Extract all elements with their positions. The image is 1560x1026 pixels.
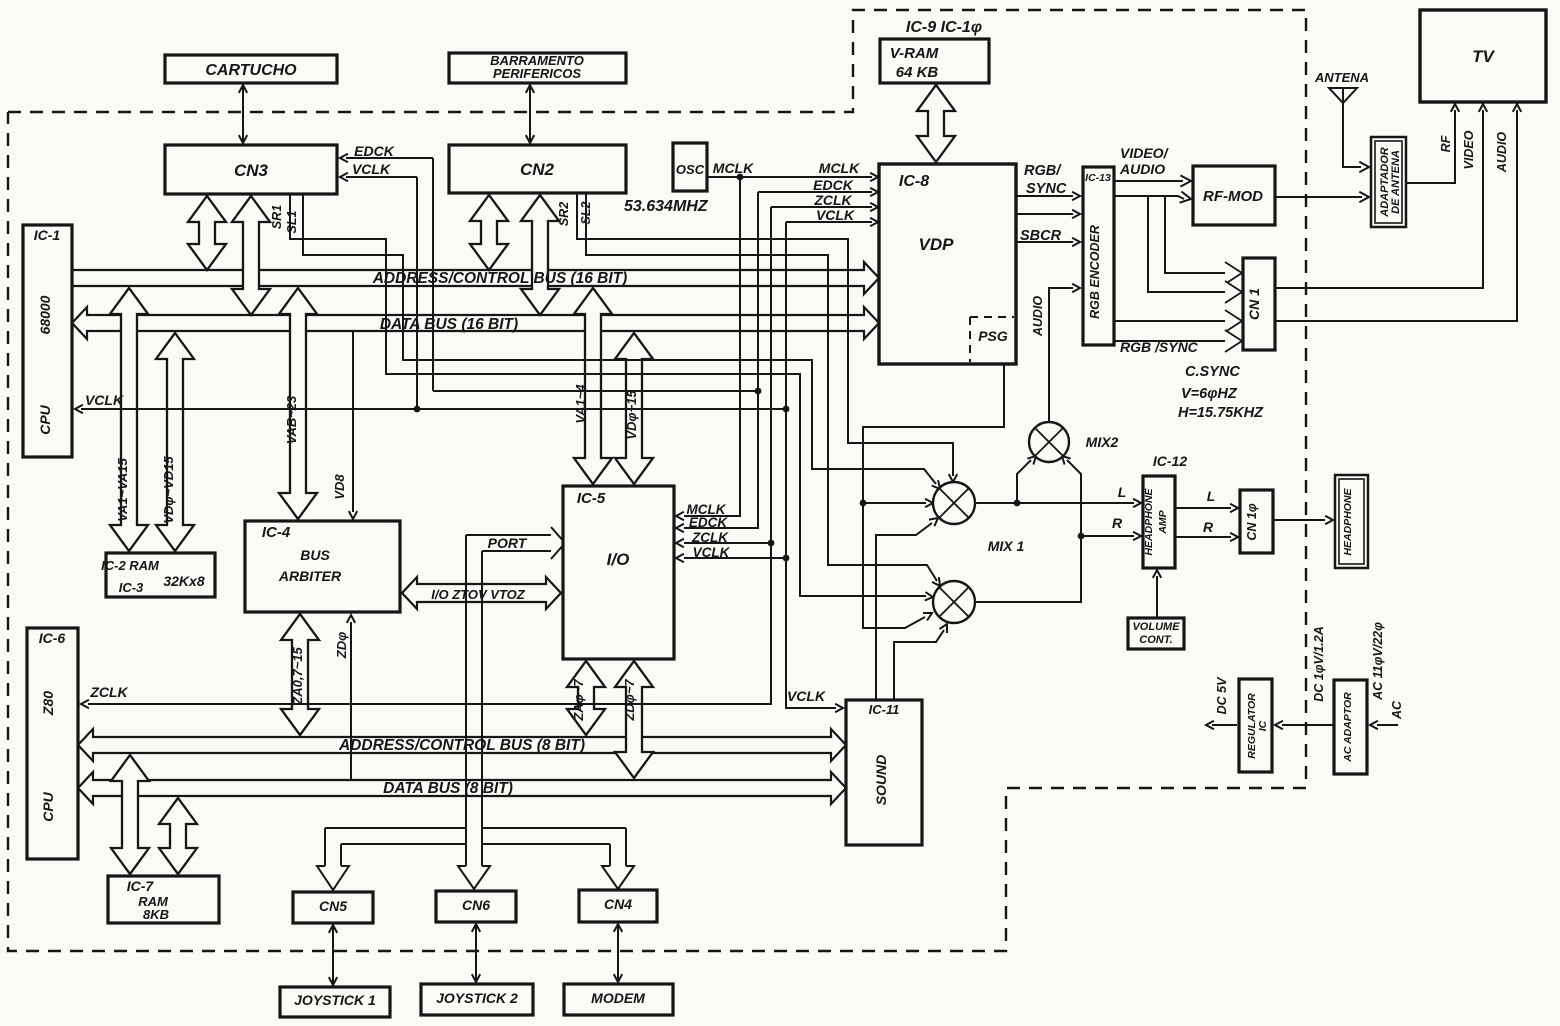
svg-text:AC 11φV/22φ: AC 11φV/22φ	[1371, 622, 1385, 701]
svg-text:IC-7: IC-7	[127, 878, 155, 894]
svg-text:53.634MHZ: 53.634MHZ	[624, 198, 709, 215]
svg-text:DC 5V: DC 5V	[1215, 676, 1229, 714]
svg-text:JOYSTICK 2: JOYSTICK 2	[436, 990, 518, 1006]
svg-text:L: L	[1118, 484, 1127, 500]
svg-text:IC: IC	[1257, 720, 1269, 731]
svg-text:IC-11: IC-11	[869, 702, 900, 717]
svg-text:VCLK: VCLK	[787, 688, 826, 704]
svg-text:SL1: SL1	[285, 210, 299, 233]
svg-text:IC-13: IC-13	[1085, 172, 1111, 184]
svg-text:R: R	[1112, 515, 1123, 531]
svg-text:ZA0,7~15: ZA0,7~15	[290, 647, 305, 706]
svg-text:AUDIO: AUDIO	[1495, 132, 1509, 174]
svg-text:VIDEO/: VIDEO/	[1120, 145, 1170, 161]
svg-text:RGB /SYNC: RGB /SYNC	[1120, 339, 1199, 355]
svg-text:ZCLK: ZCLK	[691, 530, 729, 545]
svg-text:IC-4: IC-4	[262, 524, 291, 541]
svg-text:DE ANTENA: DE ANTENA	[1390, 150, 1402, 214]
svg-text:I/O ZTOV VTOZ: I/O ZTOV VTOZ	[431, 587, 525, 602]
svg-text:ZDφ~7: ZDφ~7	[622, 679, 637, 722]
svg-text:AC ADAPTOR: AC ADAPTOR	[1342, 692, 1354, 763]
svg-text:RGB/: RGB/	[1024, 163, 1062, 179]
svg-text:SOUND: SOUND	[873, 755, 889, 806]
svg-text:VIDEO: VIDEO	[1462, 130, 1476, 169]
svg-text:ANTENA: ANTENA	[1314, 70, 1369, 85]
svg-text:ZAφ~7: ZAφ~7	[571, 679, 586, 722]
svg-text:ADDRESS/CONTROL BUS (16 BIT): ADDRESS/CONTROL BUS (16 BIT)	[372, 270, 628, 287]
svg-text:HEADPHONE: HEADPHONE	[1143, 487, 1155, 555]
svg-text:H=15.75KHZ: H=15.75KHZ	[1178, 405, 1264, 421]
svg-text:VD8: VD8	[332, 474, 347, 500]
svg-text:IC-3: IC-3	[119, 580, 144, 595]
svg-text:OSC: OSC	[676, 162, 705, 177]
svg-text:PORT: PORT	[488, 535, 528, 551]
svg-text:R: R	[1203, 519, 1214, 535]
svg-text:VA1~VA15: VA1~VA15	[115, 458, 130, 522]
svg-text:L: L	[1207, 488, 1216, 504]
svg-text:CPU: CPU	[40, 791, 56, 821]
svg-text:8KB: 8KB	[143, 907, 169, 922]
svg-text:VAB~23: VAB~23	[284, 395, 299, 444]
svg-text:BUS: BUS	[300, 547, 330, 563]
svg-text:MODEM: MODEM	[591, 990, 645, 1006]
svg-text:CN5: CN5	[319, 898, 347, 914]
svg-text:IC-2 RAM: IC-2 RAM	[101, 558, 160, 573]
svg-text:IC-6: IC-6	[39, 630, 66, 646]
svg-text:ZCLK: ZCLK	[89, 684, 128, 700]
svg-text:MIX2: MIX2	[1086, 434, 1119, 450]
svg-text:ARBITER: ARBITER	[278, 568, 342, 584]
svg-text:MCLK: MCLK	[819, 160, 860, 176]
svg-text:VOLUME: VOLUME	[1132, 621, 1180, 633]
svg-text:CARTUCHO: CARTUCHO	[205, 62, 297, 79]
svg-text:ADDRESS/CONTROL BUS (8 BIT): ADDRESS/CONTROL BUS (8 BIT)	[338, 737, 585, 754]
svg-text:AMP: AMP	[1157, 509, 1169, 534]
svg-text:VDφ~15: VDφ~15	[624, 390, 639, 440]
svg-text:V-RAM: V-RAM	[890, 45, 939, 62]
svg-text:SL2: SL2	[579, 201, 593, 224]
svg-text:TV: TV	[1472, 47, 1495, 66]
svg-text:AC: AC	[1390, 700, 1404, 720]
svg-text:VDφ~VD15: VDφ~VD15	[161, 456, 176, 524]
svg-text:SR1: SR1	[270, 205, 284, 229]
svg-text:I/O: I/O	[607, 550, 630, 569]
svg-text:MCLK: MCLK	[713, 160, 754, 176]
svg-text:SYNC: SYNC	[1026, 181, 1067, 197]
svg-text:DATA BUS (16 BIT): DATA BUS (16 BIT)	[380, 316, 518, 333]
svg-text:IC-12: IC-12	[1153, 453, 1187, 469]
svg-text:RGB ENCODER: RGB ENCODER	[1088, 225, 1102, 319]
svg-text:IC-9 IC-1φ: IC-9 IC-1φ	[906, 19, 982, 36]
svg-text:ZCLK: ZCLK	[813, 192, 852, 208]
svg-text:PSG: PSG	[978, 328, 1008, 344]
svg-text:PERIFERICOS: PERIFERICOS	[493, 66, 581, 81]
svg-text:VCLK: VCLK	[85, 392, 124, 408]
svg-text:VCLK: VCLK	[816, 207, 855, 223]
svg-text:DC 1φV/1.2A: DC 1φV/1.2A	[1312, 626, 1326, 702]
svg-text:CN6: CN6	[462, 897, 490, 913]
svg-text:EDCK: EDCK	[813, 177, 854, 193]
svg-text:VA1~4: VA1~4	[573, 384, 588, 424]
svg-text:C.SYNC: C.SYNC	[1185, 364, 1240, 380]
svg-text:CONT.: CONT.	[1139, 634, 1172, 646]
svg-text:CN 1: CN 1	[1246, 288, 1262, 320]
svg-text:MIX 1: MIX 1	[988, 538, 1025, 554]
svg-text:IC-1: IC-1	[34, 227, 61, 243]
svg-text:AUDIO: AUDIO	[1031, 296, 1045, 338]
svg-text:V=6φHZ: V=6φHZ	[1181, 386, 1238, 402]
svg-text:SR2: SR2	[557, 202, 571, 226]
svg-text:68000: 68000	[37, 295, 53, 334]
svg-text:CN2: CN2	[520, 160, 555, 179]
svg-text:Z80: Z80	[40, 691, 56, 716]
svg-text:SBCR: SBCR	[1020, 228, 1062, 244]
svg-text:ZDφ: ZDφ	[334, 632, 349, 659]
svg-text:VCLK: VCLK	[352, 161, 391, 177]
svg-text:RF: RF	[1439, 135, 1453, 152]
svg-text:EDCK: EDCK	[354, 143, 395, 159]
svg-text:64 KB: 64 KB	[896, 64, 939, 81]
svg-text:JOYSTICK 1: JOYSTICK 1	[294, 992, 376, 1008]
svg-text:IC-5: IC-5	[577, 490, 606, 507]
svg-text:AUDIO: AUDIO	[1119, 161, 1165, 177]
svg-text:CPU: CPU	[37, 404, 53, 434]
svg-text:RF-MOD: RF-MOD	[1203, 188, 1263, 205]
svg-text:EDCK: EDCK	[689, 515, 729, 530]
svg-text:VCLK: VCLK	[693, 545, 731, 560]
svg-text:CN4: CN4	[604, 896, 632, 912]
svg-text:32Kx8: 32Kx8	[163, 573, 204, 589]
svg-text:CN3: CN3	[234, 161, 269, 180]
svg-text:HEADPHONE: HEADPHONE	[1342, 487, 1354, 555]
svg-text:DATA BUS (8 BIT): DATA BUS (8 BIT)	[383, 780, 513, 797]
svg-text:IC-8: IC-8	[899, 173, 929, 190]
svg-text:VDP: VDP	[919, 235, 955, 254]
svg-text:CN 1φ: CN 1φ	[1245, 503, 1259, 540]
